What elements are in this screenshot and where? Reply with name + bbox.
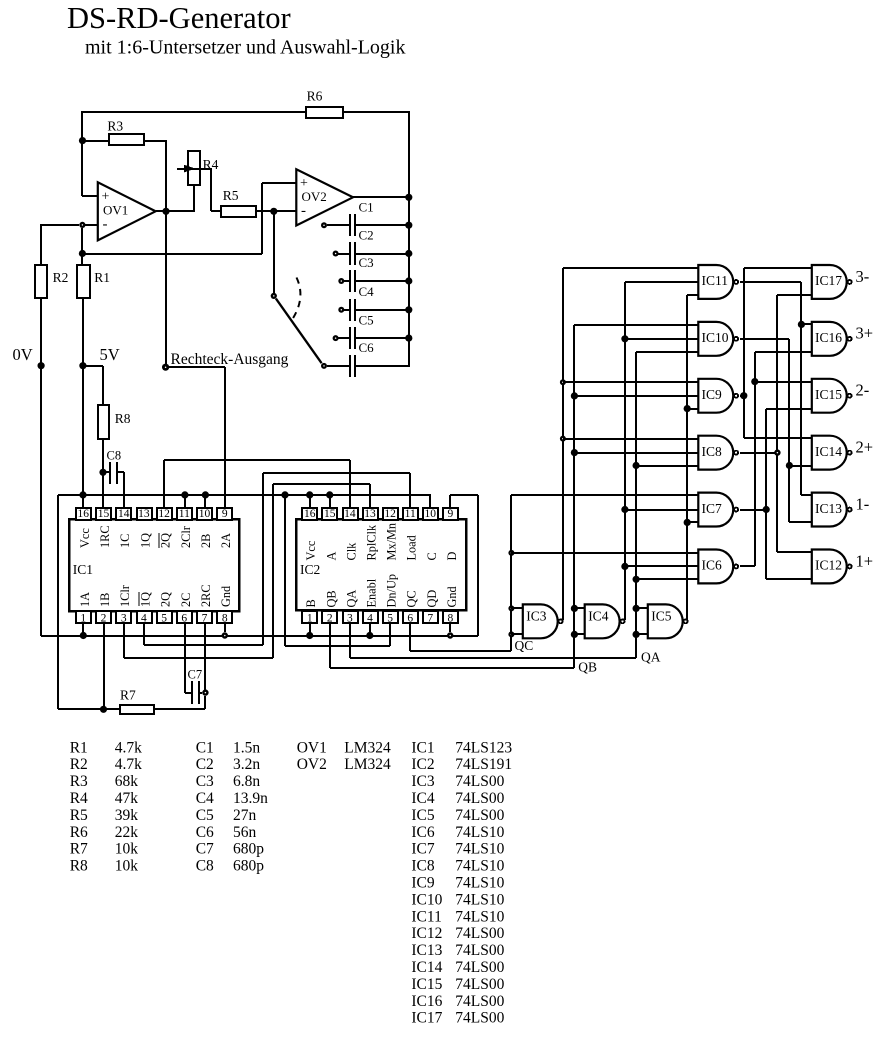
svg-text:IC12: IC12: [411, 925, 442, 942]
svg-text:27n: 27n: [233, 807, 257, 824]
node R5 output junction: [270, 208, 277, 215]
svg-text:14: 14: [118, 508, 130, 520]
svg-text:Vcc: Vcc: [304, 540, 318, 560]
IC2 pin 2: [322, 611, 337, 623]
IC2 pin 8: [443, 611, 458, 623]
wire IC1 pin12 to IC2 pin14 Clk: [163, 460, 165, 508]
nand gate IC15: [812, 379, 847, 413]
node QA bus tap IC8: [633, 462, 640, 469]
nand gate IC10: [698, 322, 733, 356]
svg-text:IC5: IC5: [411, 807, 435, 824]
svg-text:6: 6: [407, 613, 413, 625]
svg-text:7: 7: [427, 613, 433, 625]
svg-text:R6: R6: [307, 89, 323, 104]
nand gate IC4: [585, 604, 620, 638]
capacitor C6: [327, 365, 349, 367]
svg-text:R8: R8: [70, 858, 88, 875]
node bus tap IC14 in2: [786, 462, 793, 469]
IC2 pin 10: [423, 508, 438, 520]
IC2 pin 3: [343, 611, 358, 623]
svg-text:4: 4: [141, 613, 147, 625]
svg-text:R1: R1: [94, 270, 110, 285]
node 5V junction: [79, 362, 86, 369]
svg-text:D: D: [445, 552, 459, 561]
svg-text:15: 15: [98, 508, 110, 520]
wire top feedback: [82, 111, 306, 113]
svg-text:B: B: [304, 599, 318, 607]
svg-text:1.5n: 1.5n: [233, 739, 260, 756]
IC2 pin 11: [403, 508, 418, 520]
svg-text:-: -: [301, 203, 306, 219]
svg-text:2: 2: [101, 613, 107, 625]
wire IC6 output to bus: [740, 565, 755, 567]
IC2 pin 1: [302, 611, 317, 623]
svg-text:C6: C6: [196, 824, 214, 841]
wire R1 upper: [81, 228, 83, 265]
svg-text:R7: R7: [120, 687, 136, 702]
node C4 switch contact: [338, 307, 344, 313]
svg-text:1Q: 1Q: [138, 592, 152, 607]
svg-text:13: 13: [138, 508, 150, 520]
svg-text:74LS00: 74LS00: [455, 942, 504, 959]
wire IC13 inputs: [801, 494, 812, 496]
IC2 pin 14: [343, 508, 358, 520]
wire 5V distribution: [58, 494, 431, 496]
svg-text:74LS10: 74LS10: [455, 875, 504, 892]
op-amp OV1: [98, 182, 156, 240]
nand gate IC7: [698, 493, 733, 527]
IC1 pin 15: [96, 508, 111, 520]
svg-text:74LS00: 74LS00: [455, 976, 504, 993]
node C1 switch contact: [321, 222, 327, 228]
wire IC1 pin6 to C7: [184, 624, 186, 693]
svg-text:16: 16: [304, 508, 316, 520]
svg-text:OV1: OV1: [297, 739, 327, 756]
node 0V at IC2 pin4: [366, 632, 373, 639]
resistor R1: [77, 265, 90, 298]
nand gate IC12: [812, 550, 847, 584]
wire 0V rail lower: [40, 298, 42, 636]
IC2 pin 16: [302, 508, 317, 520]
node C5 bus junction: [405, 335, 412, 342]
capacitor C4: [344, 309, 349, 311]
node C2 switch contact: [333, 251, 339, 257]
node 5V at IC2 pin15: [326, 491, 333, 498]
svg-text:LM324: LM324: [344, 739, 391, 756]
svg-text:74LS00: 74LS00: [455, 925, 504, 942]
node C7 junction: [202, 689, 208, 695]
wire switch pivot drop: [273, 211, 275, 293]
svg-text:C6: C6: [359, 340, 375, 355]
svg-text:14: 14: [344, 508, 356, 520]
wire 5V to R8: [83, 365, 103, 367]
svg-text:IC11: IC11: [702, 273, 729, 288]
svg-text:IC12: IC12: [815, 558, 842, 573]
svg-text:R3: R3: [107, 118, 123, 133]
svg-text:C4: C4: [196, 790, 214, 807]
IC2 pin 12: [383, 508, 398, 520]
svg-text:6.8n: 6.8n: [233, 773, 260, 790]
capacitor C8: [103, 471, 109, 473]
IC1 pin 12: [157, 508, 172, 520]
svg-text:IC11: IC11: [411, 908, 441, 925]
resistor R5: [221, 206, 256, 217]
svg-text:mit 1:6-Untersetzer und Auswah: mit 1:6-Untersetzer und Auswahl-Logik: [85, 37, 406, 59]
svg-text:39k: 39k: [115, 807, 139, 824]
svg-text:IC16: IC16: [815, 330, 842, 345]
svg-text:IC10: IC10: [411, 891, 442, 908]
svg-text:74LS191: 74LS191: [455, 756, 512, 773]
wire IC10 output to bus: [740, 338, 789, 340]
svg-text:4.7k: 4.7k: [115, 756, 142, 773]
node OV1 - input circle: [79, 222, 85, 228]
wire R8 to IC1 pin15: [102, 439, 104, 508]
svg-text:Vcc: Vcc: [78, 528, 92, 548]
node switch pivot: [271, 293, 277, 299]
svg-text:74LS00: 74LS00: [455, 773, 504, 790]
wire IC1 pin3 1Clr: [123, 624, 125, 658]
node IC9 output junction: [740, 392, 747, 399]
svg-text:IC7: IC7: [702, 501, 723, 516]
svg-text:10: 10: [199, 508, 211, 520]
svg-text:R2: R2: [70, 756, 88, 773]
svg-text:IC3: IC3: [411, 773, 435, 790]
node R7 pin2 junction: [100, 706, 107, 713]
svg-text:47k: 47k: [115, 790, 139, 807]
node 5V at IC2 pin16: [306, 491, 313, 498]
svg-text:IC16: IC16: [411, 993, 442, 1010]
wire C7 to R7: [204, 696, 206, 709]
svg-text:2Q: 2Q: [159, 533, 173, 548]
node IC3 bus tap IC8: [560, 436, 566, 442]
IC body IC1: [69, 519, 239, 611]
nand gate IC3: [523, 604, 558, 638]
svg-text:Gnd: Gnd: [445, 586, 459, 607]
svg-text:5V: 5V: [100, 345, 120, 364]
svg-text:IC17: IC17: [815, 273, 842, 288]
trimmer R4: [188, 151, 200, 185]
svg-text:RplClk: RplClk: [365, 524, 379, 560]
nand gate IC17: [812, 265, 847, 299]
svg-text:56n: 56n: [233, 824, 257, 841]
IC2 pin 13: [363, 508, 378, 520]
node C6 switch contact: [321, 363, 327, 369]
svg-text:10: 10: [425, 508, 437, 520]
svg-text:11: 11: [179, 508, 190, 520]
node QA bus tap IC6: [633, 576, 640, 583]
IC1 pin 9: [217, 508, 232, 520]
svg-text:IC4: IC4: [411, 790, 435, 807]
svg-text:6: 6: [181, 613, 187, 625]
node QB bus tap IC9: [571, 392, 578, 399]
svg-text:2-: 2-: [856, 381, 870, 400]
wire IC11 output to bus: [740, 281, 801, 283]
wire OV1 - input: [41, 224, 79, 226]
wire feedback to OV2 +: [82, 253, 262, 255]
svg-text:C8: C8: [107, 449, 122, 463]
wire IC2 pin11 Load: [409, 473, 411, 508]
resistor R8: [98, 405, 109, 439]
svg-text:5: 5: [387, 613, 393, 625]
wire IC6 inputs: [511, 552, 698, 554]
wire IC11 inputs: [563, 267, 698, 269]
wire 5V to IC2 pin5 Dn/Up: [284, 495, 286, 646]
svg-text:IC14: IC14: [411, 959, 442, 976]
svg-text:3-: 3-: [856, 267, 870, 286]
wire Rechteck-Ausgang to IC1 pin9: [169, 366, 225, 368]
wire 5V rail: [82, 298, 84, 508]
svg-text:QC: QC: [515, 638, 534, 653]
svg-text:1: 1: [307, 613, 313, 625]
svg-text:OV1: OV1: [103, 203, 128, 218]
wire IC1 pin2 to R7: [103, 624, 105, 709]
wire IC10 inputs: [574, 324, 698, 326]
svg-text:3+: 3+: [856, 324, 874, 343]
wire capacitor bus: [408, 111, 410, 367]
svg-text:680p: 680p: [233, 858, 264, 875]
switch travel arc dashed: [293, 278, 301, 320]
svg-text:2B: 2B: [199, 534, 213, 548]
svg-text:R1: R1: [70, 739, 88, 756]
svg-text:OV2: OV2: [302, 189, 327, 204]
svg-text:Enabl: Enabl: [365, 578, 379, 607]
node IC3 bus tap IC9: [560, 379, 566, 385]
svg-text:1B: 1B: [98, 593, 112, 607]
node IC7 output junction: [763, 506, 770, 513]
IC1 pin 10: [197, 508, 212, 520]
svg-text:C1: C1: [359, 199, 374, 214]
svg-text:R5: R5: [223, 188, 239, 203]
svg-text:2+: 2+: [856, 438, 874, 457]
wire IC2 pin13 RplClk: [369, 484, 371, 508]
svg-text:2RC: 2RC: [199, 584, 213, 607]
resistor R3: [82, 140, 109, 142]
IC2 pin 9: [443, 508, 458, 520]
svg-text:C3: C3: [359, 255, 374, 270]
svg-text:22k: 22k: [115, 824, 139, 841]
svg-text:1+: 1+: [856, 551, 874, 570]
svg-text:QC: QC: [405, 590, 419, 607]
IC1 pin 16: [76, 508, 91, 520]
node C5 switch contact: [333, 335, 339, 341]
svg-text:C4: C4: [359, 284, 375, 299]
svg-text:Rechteck-Ausgang: Rechteck-Ausgang: [171, 351, 289, 368]
svg-text:Gnd: Gnd: [219, 586, 233, 607]
svg-text:QA: QA: [641, 650, 661, 665]
svg-text:1Clr: 1Clr: [118, 585, 132, 607]
wire QA: [349, 624, 351, 658]
node IC8 output junction: [774, 449, 780, 455]
wire IC16 inputs: [801, 323, 812, 325]
nand gate IC11: [698, 265, 733, 299]
node IC4 input taps from QB: [571, 605, 578, 612]
wire IC15 inputs: [755, 381, 812, 383]
IC1 pin 5: [157, 611, 172, 623]
node C2 bus junction: [405, 250, 412, 257]
svg-text:13: 13: [364, 508, 376, 520]
svg-text:C5: C5: [196, 807, 214, 824]
node IC5 bus tap IC9: [684, 405, 691, 412]
node C1 bus junction: [405, 222, 412, 229]
svg-text:IC7: IC7: [411, 841, 435, 858]
switch wiper: [276, 299, 322, 364]
node 5V at IC1 pin11: [181, 491, 188, 498]
svg-text:IC13: IC13: [815, 501, 842, 516]
IC1 pin 11: [177, 508, 192, 520]
node C8 junction: [99, 469, 106, 476]
node 0V at IC2 pin1: [306, 632, 313, 639]
svg-text:74LS00: 74LS00: [455, 993, 504, 1010]
svg-text:IC8: IC8: [411, 858, 435, 875]
svg-text:C: C: [425, 552, 439, 560]
svg-text:74LS10: 74LS10: [455, 824, 504, 841]
svg-text:C8: C8: [196, 858, 214, 875]
wire IC12 inputs: [777, 551, 812, 553]
svg-text:IC9: IC9: [702, 387, 723, 402]
svg-text:74LS10: 74LS10: [455, 841, 504, 858]
IC1 pin 6: [177, 611, 192, 623]
svg-text:12: 12: [158, 508, 170, 520]
resistor R7: [58, 708, 120, 710]
capacitor C1: [327, 224, 349, 226]
svg-text:Load: Load: [405, 535, 419, 560]
resistor R2: [35, 265, 47, 298]
svg-text:IC13: IC13: [411, 942, 442, 959]
svg-text:R5: R5: [70, 807, 88, 824]
svg-text:0V: 0V: [13, 345, 33, 364]
svg-text:R4: R4: [70, 790, 88, 807]
node R3 left junction: [79, 137, 86, 144]
IC1 pin 8: [217, 611, 232, 623]
wire R4 wiper to R5: [210, 168, 212, 211]
svg-text:R7: R7: [70, 841, 88, 858]
svg-text:1RC: 1RC: [98, 525, 112, 548]
wire IC7 output to bus: [740, 509, 766, 511]
IC2 pin 7: [423, 611, 438, 623]
svg-text:13.9n: 13.9n: [233, 790, 268, 807]
svg-text:3: 3: [347, 613, 353, 625]
svg-text:74LS00: 74LS00: [455, 1010, 504, 1027]
svg-text:12: 12: [384, 508, 396, 520]
svg-text:QB: QB: [324, 590, 338, 607]
node QC bus tap IC6: [508, 550, 514, 556]
resistor R6: [306, 107, 343, 118]
wire IC17 inputs: [744, 267, 812, 269]
svg-text:1: 1: [80, 613, 86, 625]
svg-text:IC4: IC4: [588, 609, 609, 624]
svg-text:R6: R6: [70, 824, 88, 841]
svg-text:9: 9: [222, 508, 228, 520]
svg-text:IC1: IC1: [73, 562, 93, 577]
wire ground bus 0V: [41, 635, 478, 637]
node 5V branch to Dn/Up: [281, 491, 288, 498]
wire IC9 output to bus: [740, 395, 744, 397]
node 5V at IC1 pin10: [202, 491, 209, 498]
svg-text:8: 8: [222, 613, 228, 625]
svg-text:IC3: IC3: [526, 609, 547, 624]
svg-text:10k: 10k: [115, 841, 139, 858]
svg-text:R2: R2: [53, 270, 69, 285]
svg-text:C2: C2: [196, 756, 214, 773]
svg-text:3.2n: 3.2n: [233, 756, 260, 773]
node C4 bus junction: [405, 306, 412, 313]
svg-text:Mx/Mn: Mx/Mn: [385, 523, 399, 561]
svg-text:OV2: OV2: [297, 756, 327, 773]
wire R5 to OV2 -: [256, 210, 296, 212]
svg-text:2: 2: [327, 613, 333, 625]
op-amp OV2: [296, 169, 353, 225]
node IC4 bus tap IC10: [621, 335, 628, 342]
wire IC8 inputs: [563, 438, 698, 440]
svg-text:11: 11: [405, 508, 416, 520]
wire 0V rail upper: [40, 224, 42, 265]
IC2 pin 6: [403, 611, 418, 623]
svg-text:DS-RD-Generator: DS-RD-Generator: [67, 1, 291, 35]
svg-text:1C: 1C: [118, 534, 132, 548]
svg-text:1Q: 1Q: [138, 533, 152, 548]
wire IC1 pin4 1Q to Load: [143, 624, 145, 645]
IC2 pin 4: [363, 611, 378, 623]
node bus tap IC16 in1: [798, 321, 805, 328]
node OV2 output junction: [405, 194, 412, 201]
svg-text:IC10: IC10: [702, 330, 729, 345]
wire IC9 inputs: [563, 381, 698, 383]
IC1 pin 7: [197, 611, 212, 623]
wire QC: [409, 624, 411, 651]
IC1 pin 4: [137, 611, 152, 623]
IC1 pin 3: [116, 611, 131, 623]
node C3 switch contact: [338, 278, 344, 284]
svg-text:IC5: IC5: [651, 609, 672, 624]
nand gate IC6: [698, 550, 733, 584]
wire IC1 pin7 2RC: [204, 624, 206, 690]
svg-text:IC14: IC14: [815, 444, 842, 459]
wire IC14 inputs: [744, 437, 812, 439]
node 0V at IC1 pin8: [222, 632, 228, 638]
svg-text:Dn/Up: Dn/Up: [385, 574, 399, 607]
node IC4 bus tap IC7: [621, 506, 628, 513]
IC1 pin 13: [137, 508, 152, 520]
svg-text:10k: 10k: [115, 858, 139, 875]
svg-text:2C: 2C: [179, 593, 193, 607]
svg-text:IC15: IC15: [411, 976, 442, 993]
svg-text:2A: 2A: [219, 533, 233, 548]
svg-text:3: 3: [121, 613, 127, 625]
IC body IC2: [296, 519, 466, 610]
node OV1 output junction: [162, 208, 169, 215]
svg-text:A: A: [324, 552, 338, 561]
wire IC7 inputs: [511, 494, 698, 496]
svg-text:1A: 1A: [78, 592, 92, 607]
svg-text:C7: C7: [196, 841, 214, 858]
svg-text:74LS00: 74LS00: [455, 959, 504, 976]
node inverting junction: [79, 250, 86, 257]
svg-text:IC2: IC2: [411, 756, 434, 773]
svg-text:LM324: LM324: [344, 756, 391, 773]
svg-text:IC8: IC8: [702, 444, 723, 459]
svg-text:74LS10: 74LS10: [455, 858, 504, 875]
node IC5 input taps from QA: [633, 605, 640, 612]
wire IC5 output bus: [686, 295, 688, 620]
IC1 pin 1: [76, 611, 91, 623]
svg-text:C3: C3: [196, 773, 214, 790]
node 5V at IC1 pin16: [79, 491, 86, 498]
wire IC4 output bus: [624, 282, 626, 620]
wire R4 bottom lead: [193, 185, 195, 212]
svg-text:7: 7: [202, 613, 208, 625]
svg-text:R3: R3: [70, 773, 88, 790]
svg-text:68k: 68k: [115, 773, 139, 790]
